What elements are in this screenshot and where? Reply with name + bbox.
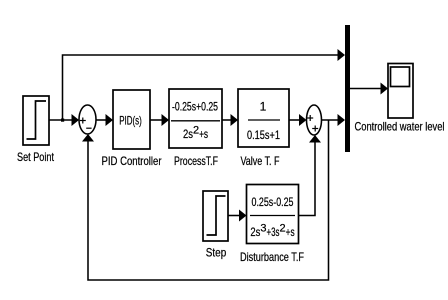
block Scope (Controlled water level) (388, 64, 413, 119)
svg-text:Step: Step (206, 246, 227, 260)
svg-text:PID(s): PID(s) (119, 114, 142, 128)
wire Valve to Sum2 (289, 114, 307, 126)
svg-text:Disturbance T.F: Disturbance T.F (240, 250, 304, 264)
svg-text:2s3+3s2+s: 2s3+3s2+s (250, 223, 294, 240)
wire Step to Disturbance T.F (228, 210, 247, 222)
wire feedback from Sum2 output down, across bottom, up to Sum1 minus input (82, 120, 329, 280)
wire Mux to Scope (350, 83, 388, 95)
block Disturbance T.F (transfer function) (247, 185, 299, 244)
svg-text:ProcessT.F: ProcessT.F (174, 154, 218, 168)
wire Disturbance T.F to Sum2 plus input (299, 135, 322, 216)
svg-text:Valve T. F: Valve T. F (241, 154, 280, 168)
svg-text:Set Point: Set Point (17, 150, 55, 164)
junction dot set point branch (61, 119, 64, 122)
wire Process to Valve (222, 114, 238, 126)
block Valve T.F (transfer function) (238, 89, 289, 147)
mux line (thick vertical bar) (345, 25, 350, 152)
svg-text:-0.25s+0.25: -0.25s+0.25 (172, 100, 218, 114)
svg-text:1: 1 (260, 100, 267, 114)
block Step (disturbance step source) (203, 191, 228, 241)
svg-text:0.25s-0.25: 0.25s-0.25 (252, 195, 294, 209)
wire Sum1 to PID (96, 114, 113, 126)
wire Sum2 to Mux (322, 114, 346, 126)
sum junction Sum1 (79, 105, 96, 134)
wire Set Point to Sum1 (49, 114, 79, 126)
sum junction Sum2 (307, 105, 322, 135)
block Set Point (step source) (23, 96, 49, 145)
svg-text:PID Controller: PID Controller (102, 154, 162, 168)
wire set point branch up and across top to Mux (63, 49, 346, 120)
block Process T.F (transfer function) (169, 89, 222, 148)
svg-text:Controlled water level: Controlled water level (355, 120, 445, 134)
block PID Controller (113, 90, 150, 149)
wire PID to Process (150, 114, 169, 126)
svg-text:0.15s+1: 0.15s+1 (247, 128, 280, 142)
